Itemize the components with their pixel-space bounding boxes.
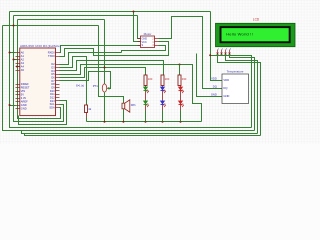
svg-text:RXD0: RXD0 [48, 51, 55, 55]
svg-text:DQ: DQ [213, 84, 217, 88]
svg-text:A0: A0 [21, 51, 25, 55]
svg-text:E=1 (s): E=1 (s) [76, 85, 84, 88]
svg-text:Hello World !!: Hello World !! [226, 31, 253, 36]
svg-text:PT1: PT1 [93, 84, 99, 88]
svg-text:330: 330 [182, 77, 187, 81]
svg-text:3.3V: 3.3V [21, 96, 27, 100]
svg-text:A2: A2 [21, 58, 25, 62]
svg-text:GND: GND [21, 107, 27, 111]
svg-text:TXD0: TXD0 [48, 54, 55, 58]
svg-text:DQ: DQ [223, 86, 227, 90]
svg-text:A4: A4 [21, 65, 25, 69]
svg-text:IOREF: IOREF [21, 82, 29, 86]
svg-text:RESET: RESET [21, 86, 30, 90]
svg-text:AREF: AREF [21, 100, 28, 104]
svg-text:GND: GND [223, 94, 229, 98]
svg-text:GND: GND [211, 92, 217, 96]
svg-text:DP1: DP1 [131, 104, 136, 107]
svg-text:SDA: SDA [49, 106, 55, 110]
svg-text:A5: A5 [21, 68, 25, 72]
svg-text:VDD: VDD [211, 76, 217, 80]
svg-text:Motor: Motor [144, 32, 152, 36]
svg-text:A3: A3 [21, 61, 25, 65]
svg-text:LCD: LCD [253, 17, 260, 21]
svg-text:5V: 5V [21, 93, 24, 97]
svg-text:ARDUINO UNO R3 (FullSize): ARDUINO UNO R3 (FullSize) [20, 44, 61, 48]
svg-text:VDD: VDD [223, 78, 229, 82]
svg-text:A1: A1 [21, 54, 25, 58]
svg-text:Temperature: Temperature [227, 70, 244, 74]
svg-text:VIN: VIN [21, 89, 25, 93]
svg-text:200: 200 [165, 77, 170, 81]
svg-text:100: 100 [148, 77, 153, 81]
svg-text:GND: GND [21, 103, 27, 107]
